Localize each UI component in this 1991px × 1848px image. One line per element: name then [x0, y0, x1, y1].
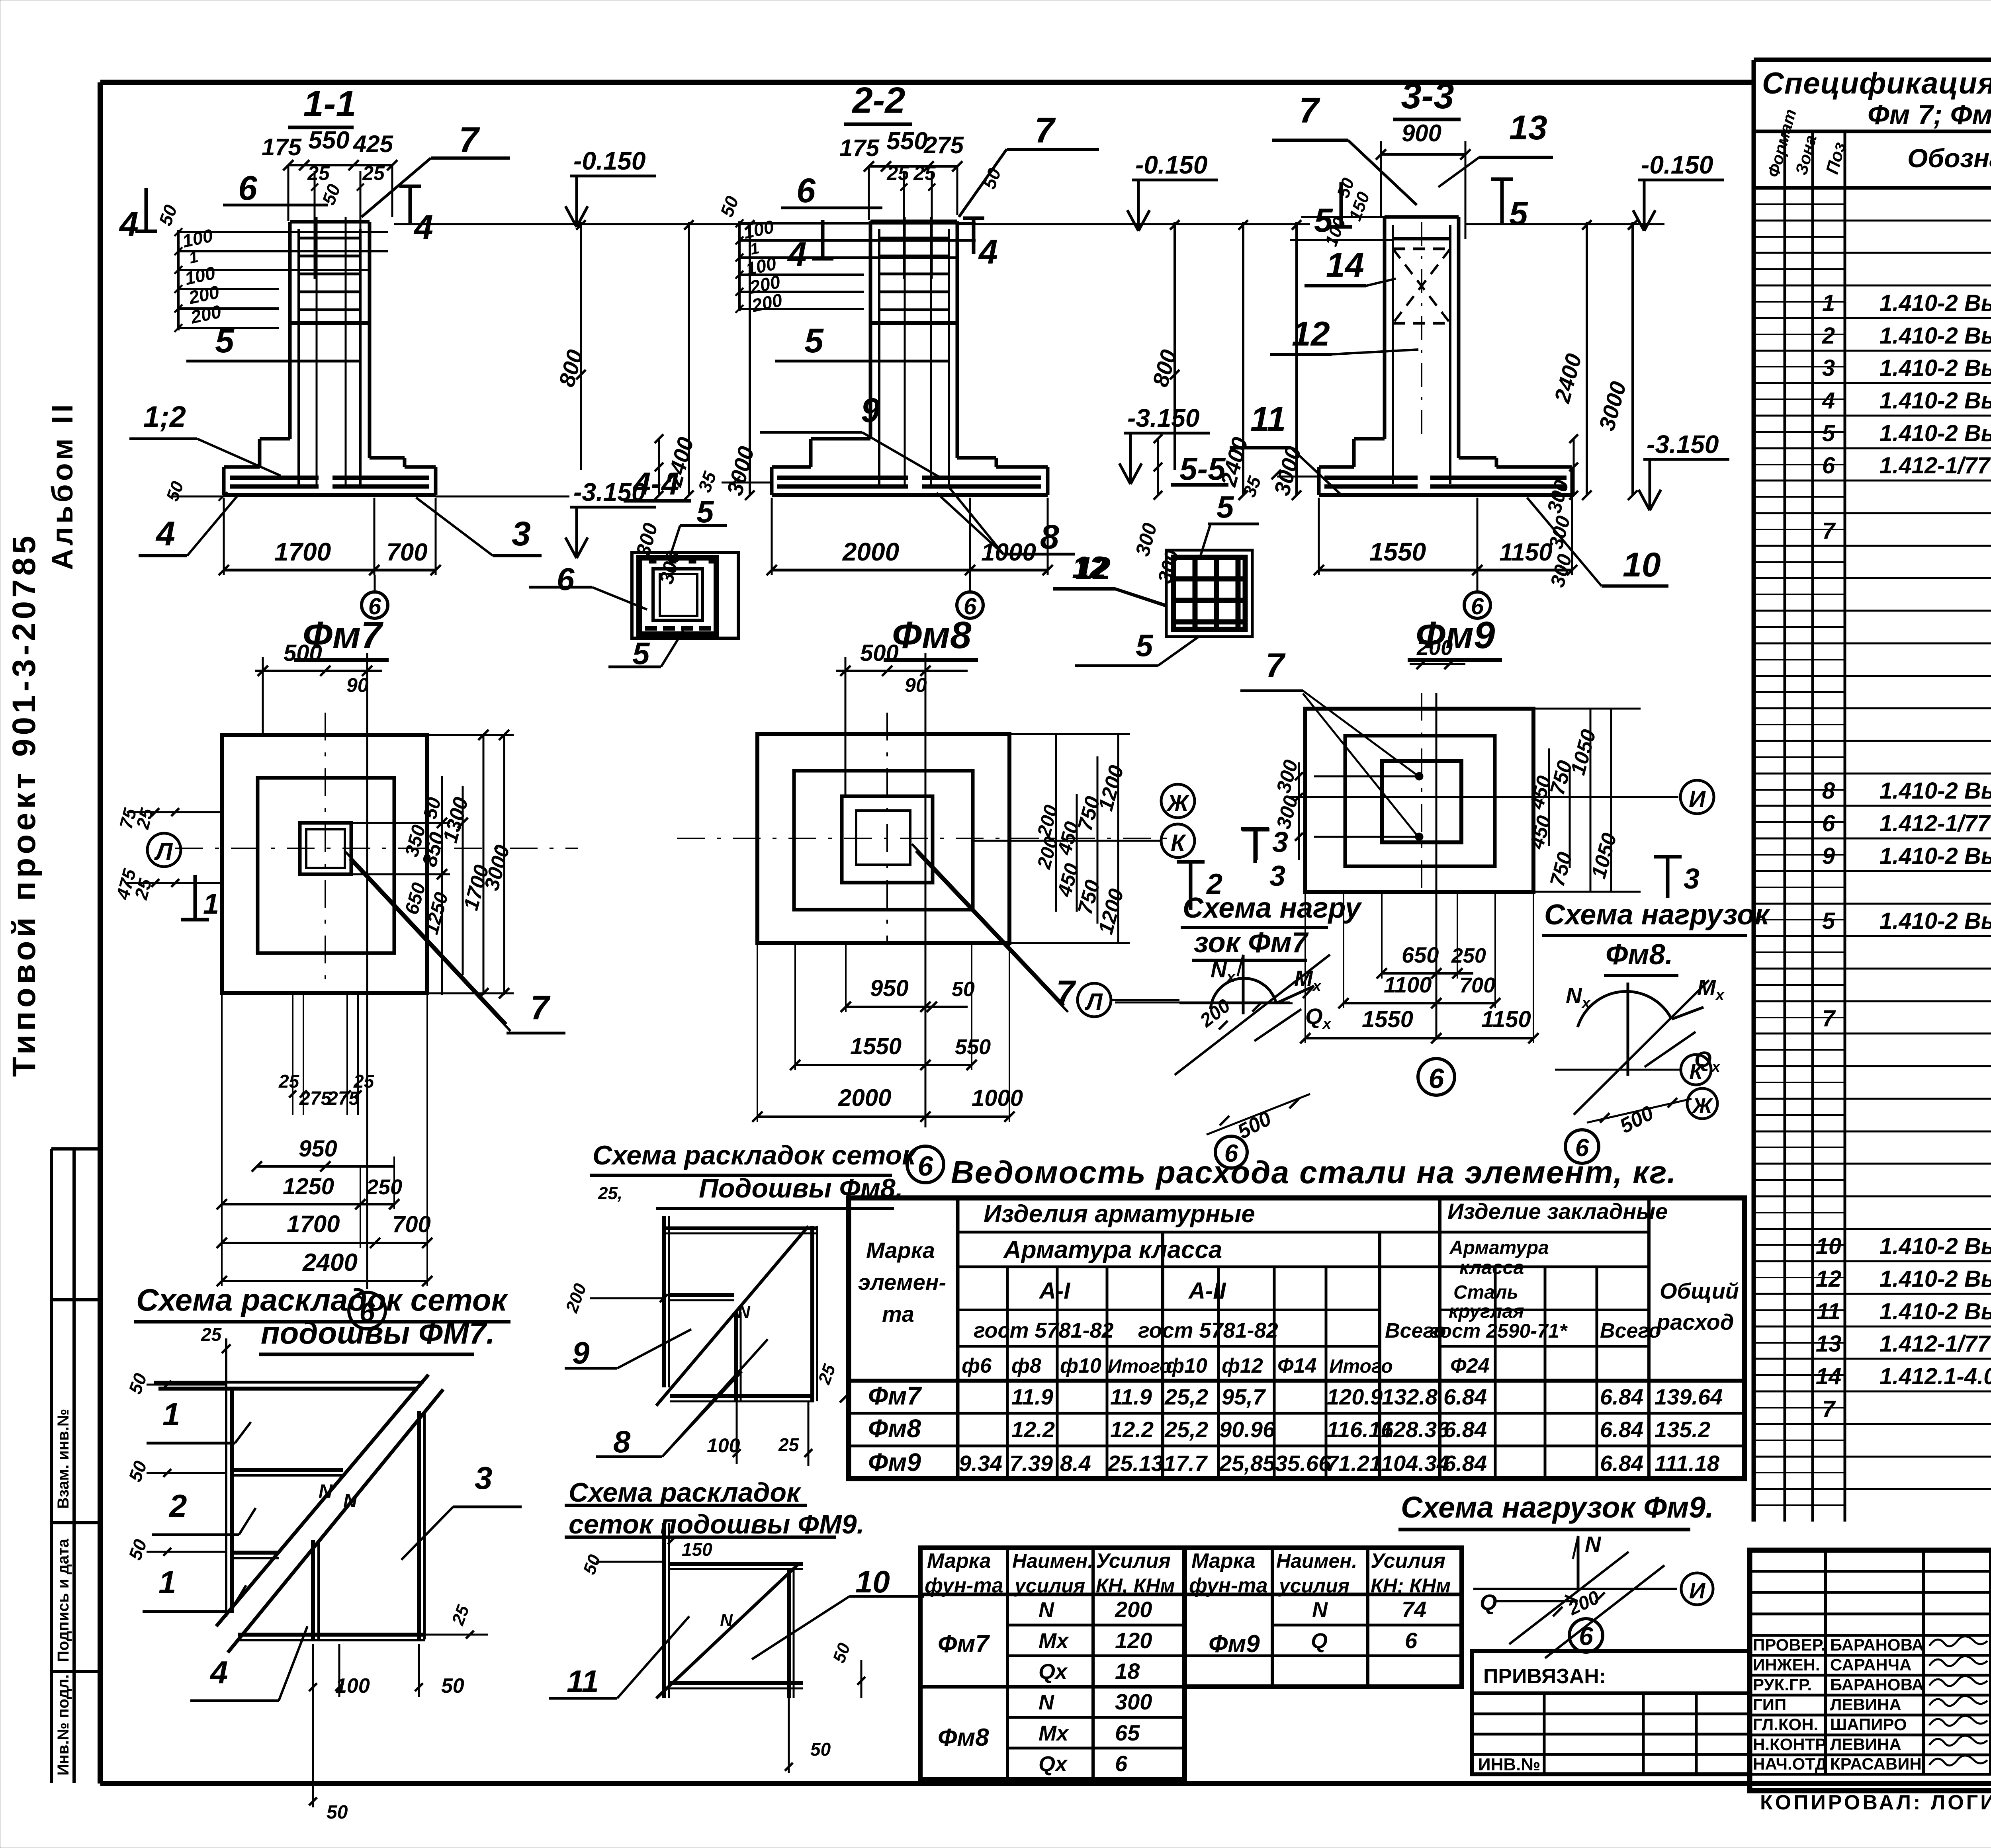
svg-text:ЛЕВИНА: ЛЕВИНА — [1830, 1695, 1901, 1714]
svg-text:БАРАНОВА: БАРАНОВА — [1830, 1675, 1924, 1694]
svg-text:Фм9: Фм9 — [1209, 1630, 1260, 1658]
svg-text:120.9: 120.9 — [1327, 1384, 1383, 1409]
svg-text:ИНЖЕН.: ИНЖЕН. — [1753, 1655, 1820, 1674]
svg-text:5: 5 — [1314, 201, 1333, 239]
svg-text:7: 7 — [1056, 974, 1076, 1012]
svg-text:РУК.ГР.: РУК.ГР. — [1753, 1675, 1812, 1694]
svg-text:12.2: 12.2 — [1011, 1417, 1055, 1442]
svg-text:К: К — [1689, 1060, 1704, 1084]
svg-text:Фм8: Фм8 — [892, 614, 972, 656]
svg-text:4: 4 — [155, 515, 175, 553]
svg-text:та: та — [882, 1301, 914, 1326]
svg-text:13: 13 — [1509, 109, 1547, 147]
svg-text:700: 700 — [1459, 973, 1495, 997]
svg-text:1.412-1/77 Вып.3: 1.412-1/77 Вып.3 — [1880, 453, 1991, 479]
svg-text:4-4: 4-4 — [632, 466, 679, 501]
svg-text:Ж: Ж — [1166, 790, 1190, 816]
svg-text:1550: 1550 — [1362, 1006, 1413, 1032]
svg-text:7: 7 — [1822, 1006, 1836, 1031]
svg-text:Схема раскладок сеток: Схема раскладок сеток — [593, 1140, 917, 1170]
svg-text:N: N — [1312, 1598, 1328, 1622]
svg-text:65: 65 — [1115, 1720, 1140, 1745]
svg-text:N: N — [1585, 1532, 1602, 1557]
svg-text:1100: 1100 — [1384, 972, 1432, 997]
svg-text:50: 50 — [441, 1674, 464, 1698]
svg-text:90: 90 — [905, 674, 927, 696]
svg-text:1000: 1000 — [972, 1085, 1023, 1111]
svg-text:6.84: 6.84 — [1443, 1451, 1487, 1476]
svg-text:ГЛ.КОН.: ГЛ.КОН. — [1753, 1715, 1818, 1734]
svg-text:14: 14 — [1326, 246, 1364, 284]
svg-text:1700: 1700 — [287, 1211, 340, 1237]
svg-text:650: 650 — [1402, 942, 1439, 967]
svg-text:132.8: 132.8 — [1382, 1384, 1438, 1409]
svg-text:7.39: 7.39 — [1009, 1451, 1053, 1476]
svg-text:1550: 1550 — [1369, 537, 1426, 566]
svg-text:Наимен.: Наимен. — [1276, 1550, 1357, 1572]
svg-text:25,2: 25,2 — [1164, 1384, 1208, 1409]
svg-text:12: 12 — [1816, 1266, 1842, 1292]
svg-text:1.410-2 Вып.1: 1.410-2 Вып.1 — [1880, 1266, 1991, 1292]
svg-text:Фм9: Фм9 — [868, 1448, 921, 1477]
svg-text:200: 200 — [1115, 1597, 1152, 1622]
svg-text:Арматура класса: Арматура класса — [1003, 1236, 1222, 1264]
svg-text:18: 18 — [1115, 1659, 1140, 1684]
svg-text:6.84: 6.84 — [1443, 1384, 1487, 1409]
svg-text:Усилия: Усилия — [1096, 1549, 1171, 1573]
svg-text:1000: 1000 — [981, 539, 1036, 566]
svg-text:500: 500 — [860, 640, 899, 666]
svg-text:КОПИРОВАЛ: ЛОГИНОВА: КОПИРОВАЛ: ЛОГИНОВА — [1760, 1791, 1991, 1814]
svg-text:135.2: 135.2 — [1655, 1417, 1710, 1442]
svg-text:1: 1 — [1822, 290, 1835, 316]
svg-text:2400: 2400 — [302, 1249, 358, 1276]
svg-text:Ф14: Ф14 — [1277, 1354, 1317, 1377]
svg-text:8: 8 — [1040, 518, 1059, 556]
svg-text:Марка: Марка — [866, 1238, 935, 1263]
svg-text:Схема нагру: Схема нагру — [1183, 892, 1363, 924]
svg-text:6: 6 — [1822, 811, 1835, 836]
svg-text:усилия: усилия — [1278, 1575, 1349, 1597]
svg-text:N: N — [737, 1302, 751, 1322]
svg-text:А-II: А-II — [1188, 1278, 1226, 1304]
svg-text:ПРИВЯЗАН:: ПРИВЯЗАН: — [1483, 1665, 1606, 1688]
svg-text:500: 500 — [284, 640, 322, 666]
svg-text:фун-та: фун-та — [925, 1574, 1003, 1597]
svg-text:3: 3 — [475, 1460, 493, 1496]
svg-text:17.7: 17.7 — [1164, 1451, 1208, 1476]
svg-text:САРАНЧА: САРАНЧА — [1830, 1655, 1911, 1674]
svg-text:Ведомость расхода стали на эле: Ведомость расхода стали на элемент, кг. — [951, 1155, 1677, 1190]
svg-text:БАРАНОВА: БАРАНОВА — [1830, 1635, 1924, 1654]
svg-text:6: 6 — [1429, 1063, 1445, 1094]
svg-text:Подпись и дата: Подпись и дата — [55, 1538, 72, 1662]
svg-text:Марка: Марка — [1191, 1549, 1256, 1573]
svg-text:Обозначение: Обозначение — [1907, 143, 1991, 173]
svg-text:1.410-2 Вып.1: 1.410-2 Вып.1 — [1880, 388, 1991, 414]
svg-text:Спецификация монолитных фундам: Спецификация монолитных фундаментов — [1762, 66, 1991, 100]
svg-text:2-2: 2-2 — [852, 80, 906, 121]
svg-text:25: 25 — [307, 162, 330, 184]
svg-text:90.96: 90.96 — [1219, 1417, 1275, 1442]
svg-text:Фм7: Фм7 — [938, 1630, 990, 1658]
svg-text:НАЧ.ОТД: НАЧ.ОТД — [1753, 1754, 1827, 1773]
svg-text:Фм7: Фм7 — [868, 1381, 922, 1410]
svg-text:7: 7 — [530, 989, 551, 1027]
svg-text:1.410-2 Вып.1: 1.410-2 Вып.1 — [1880, 323, 1991, 349]
svg-text:25: 25 — [278, 1071, 300, 1092]
svg-text:7: 7 — [1822, 1396, 1836, 1422]
svg-text:6: 6 — [1405, 1628, 1418, 1653]
svg-text:11.9: 11.9 — [1011, 1384, 1053, 1409]
svg-text:13: 13 — [1816, 1331, 1842, 1357]
svg-text:ЛЕВИНА: ЛЕВИНА — [1830, 1735, 1901, 1754]
svg-text:71.21: 71.21 — [1326, 1451, 1382, 1476]
svg-text:50: 50 — [810, 1739, 831, 1760]
svg-text:круглая: круглая — [1449, 1301, 1524, 1322]
svg-text:сеток подошвы ФМ9.: сеток подошвы ФМ9. — [569, 1509, 864, 1539]
svg-text:104.34: 104.34 — [1381, 1451, 1449, 1476]
svg-text:класса: класса — [1459, 1257, 1524, 1278]
svg-text:-3.150: -3.150 — [1647, 430, 1719, 459]
svg-text:подошвы ФМ7.: подошвы ФМ7. — [261, 1315, 495, 1350]
svg-text:Фм 7; Фм8; Фм9.: Фм 7; Фм8; Фм9. — [1868, 99, 1991, 130]
svg-text:Итого: Итого — [1329, 1356, 1393, 1377]
svg-text:4: 4 — [119, 205, 139, 243]
svg-text:2: 2 — [168, 1488, 187, 1524]
svg-text:25,2: 25,2 — [1164, 1417, 1208, 1442]
svg-text:КРАСАВИН: КРАСАВИН — [1830, 1754, 1922, 1773]
svg-text:1.410-2 Вып.1: 1.410-2 Вып.1 — [1880, 1233, 1991, 1259]
svg-text:расход: расход — [1656, 1309, 1734, 1334]
svg-text:1: 1 — [203, 888, 219, 920]
svg-text:3: 3 — [1272, 826, 1288, 858]
svg-text:128.36: 128.36 — [1381, 1417, 1449, 1442]
svg-text:4: 4 — [413, 208, 433, 246]
svg-text:5: 5 — [1822, 908, 1835, 934]
svg-text:1150: 1150 — [1481, 1006, 1531, 1032]
svg-text:ф6: ф6 — [962, 1354, 992, 1377]
svg-text:90: 90 — [346, 674, 369, 696]
svg-text:-3.150: -3.150 — [1127, 404, 1199, 432]
svg-text:N: N — [1039, 1598, 1054, 1622]
svg-text:ф10: ф10 — [1060, 1354, 1101, 1377]
svg-text:11: 11 — [1250, 400, 1286, 438]
svg-text:5: 5 — [1217, 489, 1234, 524]
svg-text:1.410-2 Вып.1: 1.410-2 Вып.1 — [1880, 420, 1991, 446]
svg-text:ШАПИРО: ШАПИРО — [1830, 1715, 1907, 1734]
svg-text:элемен-: элемен- — [858, 1270, 946, 1295]
svg-text:ф12: ф12 — [1222, 1354, 1263, 1377]
svg-text:1250: 1250 — [283, 1174, 334, 1199]
svg-text:7: 7 — [1035, 111, 1056, 150]
svg-text:КН; КНм: КН; КНм — [1371, 1575, 1451, 1597]
svg-text:25,85: 25,85 — [1219, 1451, 1275, 1476]
svg-text:9.34: 9.34 — [959, 1451, 1002, 1476]
svg-text:900: 900 — [1402, 120, 1441, 147]
svg-text:7: 7 — [1822, 518, 1836, 544]
svg-text:ПРОВЕР.: ПРОВЕР. — [1753, 1635, 1825, 1654]
svg-text:10: 10 — [1623, 546, 1661, 584]
svg-text:550: 550 — [955, 1035, 991, 1059]
svg-text:И: И — [1689, 786, 1706, 812]
svg-text:25,: 25, — [598, 1184, 622, 1203]
svg-text:175: 175 — [262, 134, 302, 160]
svg-text:25: 25 — [362, 162, 385, 184]
svg-text:ф8: ф8 — [1011, 1354, 1041, 1377]
svg-text:7: 7 — [1265, 647, 1286, 684]
svg-text:1.412.1-4.080: 1.412.1-4.080 — [1880, 1364, 1991, 1389]
svg-text:300: 300 — [1115, 1689, 1152, 1714]
svg-text:И: И — [1689, 1578, 1706, 1603]
svg-text:9: 9 — [861, 391, 880, 430]
svg-text:50: 50 — [327, 1802, 348, 1823]
svg-text:2000: 2000 — [838, 1084, 891, 1111]
svg-text:Изделия арматурные: Изделия арматурные — [984, 1200, 1255, 1228]
svg-text:6.84: 6.84 — [1600, 1417, 1643, 1442]
svg-text:12.2: 12.2 — [1110, 1417, 1154, 1442]
svg-text:6: 6 — [1115, 1751, 1128, 1776]
svg-text:Qх: Qх — [1039, 1752, 1068, 1776]
svg-text:Ф24: Ф24 — [1450, 1354, 1490, 1377]
svg-text:1: 1 — [158, 1565, 176, 1600]
svg-text:Всего: Всего — [1600, 1319, 1661, 1342]
svg-text:425: 425 — [353, 131, 394, 157]
svg-text:гост 5781-82: гост 5781-82 — [1138, 1319, 1278, 1342]
svg-text:25: 25 — [201, 1324, 222, 1345]
svg-text:25: 25 — [778, 1434, 800, 1455]
svg-text:1.410-2 Вып.1: 1.410-2 Вып.1 — [1880, 908, 1991, 934]
svg-text:700: 700 — [386, 539, 427, 566]
svg-text:Наимен.: Наимен. — [1012, 1550, 1093, 1572]
svg-text:-0.150: -0.150 — [1135, 150, 1207, 179]
svg-text:Фм8: Фм8 — [868, 1414, 921, 1443]
svg-text:4: 4 — [1822, 388, 1835, 414]
svg-text:9: 9 — [572, 1335, 590, 1370]
svg-text:Итого: Итого — [1108, 1356, 1172, 1377]
svg-text:зок Фм7: зок Фм7 — [1194, 927, 1309, 959]
svg-text:1.410-2 Вып.1: 1.410-2 Вып.1 — [1880, 843, 1991, 869]
svg-text:1.410-2 Вып.1: 1.410-2 Вып.1 — [1880, 778, 1991, 804]
svg-text:6: 6 — [1579, 1622, 1593, 1651]
svg-text:3-3: 3-3 — [1401, 76, 1454, 116]
svg-text:Л: Л — [154, 838, 173, 865]
svg-text:Инв.№ подл.: Инв.№ подл. — [55, 1674, 72, 1776]
svg-text:25: 25 — [353, 1071, 375, 1092]
svg-text:95,7: 95,7 — [1222, 1384, 1266, 1409]
svg-text:5: 5 — [696, 494, 714, 529]
svg-text:6: 6 — [918, 1151, 934, 1182]
svg-text:Взам. инв.№: Взам. инв.№ — [55, 1409, 72, 1509]
svg-text:8.4: 8.4 — [1060, 1451, 1091, 1476]
svg-text:1.410-2 Вып.1: 1.410-2 Вып.1 — [1880, 290, 1991, 316]
svg-text:200: 200 — [1416, 636, 1453, 660]
svg-text:ф10: ф10 — [1166, 1354, 1207, 1377]
svg-text:700: 700 — [392, 1211, 431, 1237]
svg-text:10: 10 — [855, 1564, 890, 1599]
svg-text:Типовой проект 901-3-20785: Типовой проект 901-3-20785 — [6, 532, 42, 1077]
svg-text:25.13: 25.13 — [1107, 1451, 1164, 1476]
svg-text:1-1: 1-1 — [303, 84, 356, 124]
svg-text:11.9: 11.9 — [1110, 1384, 1152, 1409]
svg-text:175: 175 — [839, 135, 880, 161]
svg-text:Усилия: Усилия — [1371, 1549, 1445, 1573]
svg-text:5-5: 5-5 — [1179, 451, 1226, 486]
svg-text:7: 7 — [459, 120, 480, 160]
svg-text:1550: 1550 — [850, 1033, 902, 1059]
svg-text:950: 950 — [299, 1136, 337, 1162]
svg-text:Общий: Общий — [1660, 1278, 1739, 1303]
svg-text:Сталь: Сталь — [1453, 1282, 1518, 1303]
svg-text:550: 550 — [886, 127, 927, 155]
svg-text:1.410-2 Вып.1: 1.410-2 Вып.1 — [1880, 355, 1991, 381]
svg-text:6: 6 — [238, 169, 258, 207]
svg-text:усилия: усилия — [1013, 1575, 1085, 1597]
svg-text:N: N — [319, 1481, 333, 1502]
svg-text:Схема раскладок: Схема раскладок — [569, 1477, 802, 1508]
svg-text:Мх: Мх — [1039, 1721, 1069, 1745]
svg-text:3: 3 — [1822, 355, 1835, 381]
svg-text:250: 250 — [366, 1175, 402, 1199]
svg-text:5: 5 — [215, 322, 235, 360]
svg-text:8: 8 — [613, 1424, 631, 1459]
svg-text:5: 5 — [804, 322, 824, 360]
svg-text:ГИП: ГИП — [1753, 1695, 1786, 1714]
svg-text:10: 10 — [1816, 1233, 1842, 1259]
svg-text:11: 11 — [567, 1664, 599, 1699]
svg-text:Фм8.: Фм8. — [1606, 939, 1673, 971]
svg-text:14: 14 — [1816, 1364, 1842, 1389]
svg-text:Изделие закладные: Изделие закладные — [1447, 1199, 1668, 1224]
svg-text:1.410-2 Вып.1: 1.410-2 Вып.1 — [1880, 1299, 1991, 1324]
svg-text:Фм8: Фм8 — [938, 1724, 989, 1751]
svg-text:950: 950 — [870, 975, 909, 1001]
svg-text:Qх: Qх — [1039, 1660, 1068, 1684]
svg-text:1;2: 1;2 — [143, 400, 186, 433]
svg-text:25: 25 — [886, 162, 909, 184]
svg-text:1.412-1/77 Вып.3: 1.412-1/77 Вып.3 — [1880, 1331, 1991, 1357]
svg-text:139.64: 139.64 — [1655, 1384, 1723, 1409]
svg-text:1700: 1700 — [274, 537, 331, 566]
svg-text:Л: Л — [1084, 988, 1103, 1015]
svg-text:5: 5 — [1822, 420, 1835, 446]
svg-text:120: 120 — [1115, 1628, 1152, 1653]
svg-text:11: 11 — [1817, 1299, 1840, 1324]
svg-text:6.84: 6.84 — [1443, 1417, 1487, 1442]
svg-text:Альбом II: Альбом II — [46, 401, 79, 570]
svg-text:Ж: Ж — [1691, 1094, 1713, 1118]
svg-text:А-I: А-I — [1039, 1278, 1071, 1304]
svg-text:Схема нагрузок: Схема нагрузок — [1544, 899, 1770, 931]
svg-text:7: 7 — [1299, 91, 1320, 131]
svg-text:9: 9 — [1822, 843, 1835, 869]
svg-text:6: 6 — [796, 172, 816, 210]
svg-text:5: 5 — [1136, 628, 1154, 663]
svg-text:фун-та: фун-та — [1189, 1574, 1268, 1597]
svg-text:6.84: 6.84 — [1600, 1451, 1643, 1476]
svg-text:К: К — [1171, 830, 1186, 856]
svg-text:275: 275 — [923, 132, 964, 158]
svg-text:2: 2 — [1822, 323, 1835, 349]
svg-text:N: N — [343, 1491, 358, 1512]
svg-text:N: N — [1039, 1690, 1054, 1714]
svg-text:111.18: 111.18 — [1655, 1451, 1720, 1476]
svg-text:6.84: 6.84 — [1600, 1384, 1643, 1409]
svg-text:3: 3 — [1269, 860, 1285, 892]
svg-text:35.66: 35.66 — [1275, 1451, 1331, 1476]
svg-text:12: 12 — [1072, 550, 1107, 585]
svg-text:6: 6 — [1822, 453, 1835, 479]
svg-text:Арматура: Арматура — [1449, 1237, 1549, 1258]
svg-text:N: N — [720, 1611, 733, 1630]
svg-text:150: 150 — [682, 1539, 712, 1560]
svg-text:6: 6 — [557, 561, 575, 597]
svg-text:гост 5781-82: гост 5781-82 — [974, 1319, 1114, 1342]
svg-text:ИНВ.№: ИНВ.№ — [1478, 1755, 1540, 1774]
svg-text:74: 74 — [1402, 1597, 1426, 1622]
svg-text:1150: 1150 — [1499, 539, 1552, 566]
svg-text:гост 2590-71*: гост 2590-71* — [1430, 1320, 1568, 1342]
svg-text:550: 550 — [308, 127, 349, 154]
svg-text:8: 8 — [1822, 778, 1835, 804]
svg-text:250: 250 — [1451, 944, 1486, 967]
svg-text:5: 5 — [1509, 195, 1528, 232]
svg-text:1: 1 — [162, 1397, 180, 1432]
svg-text:Q: Q — [1480, 1590, 1497, 1615]
svg-text:Н.КОНТР: Н.КОНТР — [1753, 1735, 1826, 1754]
svg-text:-0.150: -0.150 — [1641, 150, 1713, 179]
svg-text:3: 3 — [512, 515, 531, 553]
svg-text:4: 4 — [978, 233, 998, 271]
svg-text:1.412-1/77 Вып.3: 1.412-1/77 Вып.3 — [1880, 811, 1991, 836]
svg-text:КН, КНм: КН, КНм — [1096, 1575, 1175, 1597]
svg-text:Мх: Мх — [1039, 1629, 1069, 1653]
svg-text:-0.150: -0.150 — [573, 147, 645, 175]
svg-text:3: 3 — [1684, 863, 1700, 895]
svg-text:Схема раскладок сеток: Схема раскладок сеток — [136, 1282, 508, 1317]
svg-text:12: 12 — [1292, 315, 1330, 353]
svg-text:2000: 2000 — [842, 537, 899, 566]
svg-text:Схема нагрузок Фм9.: Схема нагрузок Фм9. — [1401, 1491, 1714, 1524]
svg-text:Марка: Марка — [927, 1549, 991, 1573]
svg-text:Q: Q — [1311, 1629, 1328, 1653]
svg-text:4: 4 — [209, 1655, 228, 1690]
